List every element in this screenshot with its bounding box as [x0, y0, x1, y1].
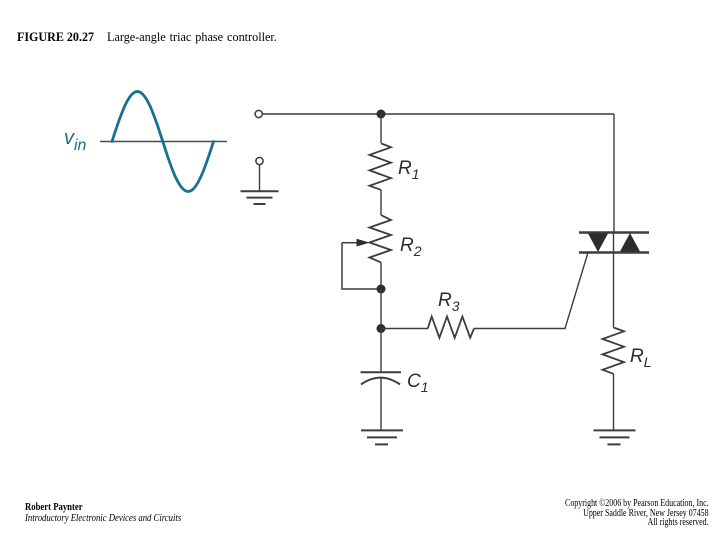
- wiper arrow of R2: [342, 242, 358, 244]
- wire (wiper loop to node B): [342, 243, 378, 289]
- vin sine waveform: [112, 92, 214, 192]
- node B (wiper junction): [377, 285, 386, 294]
- wire (node C to R3): [381, 328, 428, 330]
- node A (top junction): [377, 110, 386, 119]
- wire (right vertical, anode side): [613, 114, 615, 233]
- wire (R2 bottom to node B): [380, 262, 382, 289]
- node C (divider output junction): [377, 324, 386, 333]
- footer left credit: [25, 502, 181, 524]
- wire (top horizontal): [263, 113, 614, 115]
- wire (R1 to R2): [380, 190, 382, 215]
- footer right copyright: [565, 499, 709, 528]
- vin axis line: [100, 141, 227, 143]
- wire (node B to node C): [380, 289, 382, 329]
- ground (RL): [594, 430, 636, 444]
- svg-text:vin: vin: [64, 127, 87, 154]
- svg-text:R3: R3: [438, 290, 460, 314]
- wire (node A to R1): [380, 114, 382, 143]
- ground (C1): [361, 430, 403, 444]
- resistor RL: [603, 328, 625, 374]
- terminal (top input): [255, 110, 262, 117]
- svg-text:RL: RL: [630, 346, 652, 370]
- svg-text:C1: C1: [407, 371, 429, 395]
- ground (input): [241, 191, 279, 204]
- triac: [579, 231, 649, 233]
- capacitor C1: [361, 371, 401, 373]
- svg-text:R2: R2: [400, 235, 422, 259]
- svg-text:R1: R1: [398, 158, 420, 182]
- wire (terminal to input ground): [259, 165, 261, 191]
- resistor R3: [428, 317, 474, 338]
- wire (node C to C1): [380, 329, 382, 373]
- wire (RL to ground): [613, 374, 615, 430]
- potentiometer R2: [370, 215, 392, 262]
- figure caption: [0, 29, 720, 45]
- terminal (bottom input): [256, 157, 263, 164]
- wire (R3 to triac gate): [474, 253, 588, 329]
- resistor R1: [370, 143, 392, 189]
- wire (C1 to ground): [380, 378, 382, 430]
